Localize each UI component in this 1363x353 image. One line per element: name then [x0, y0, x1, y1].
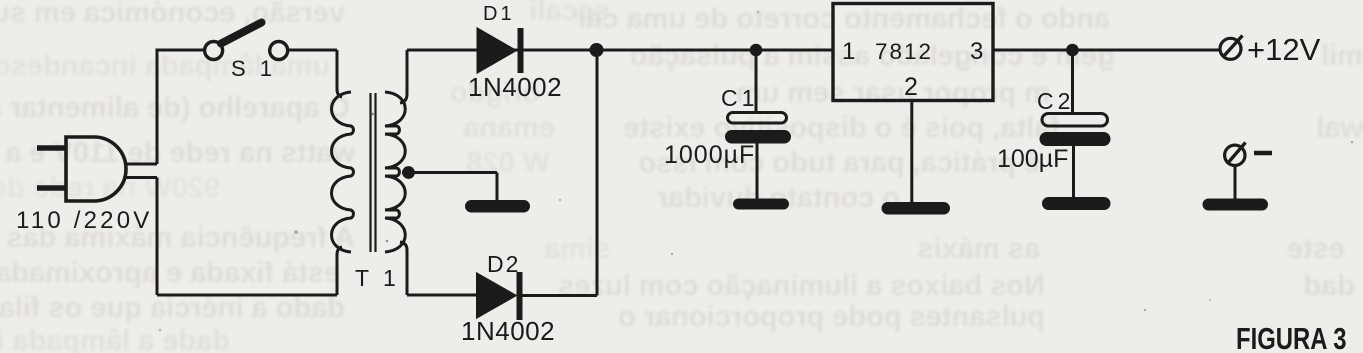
- svg-text:920W na rede de 220V.: 920W na rede de 220V.: [0, 172, 220, 204]
- svg-text:dade a lâmpada inc: dade a lâmpada inc: [0, 325, 230, 353]
- diode D2: [478, 272, 520, 320]
- svg-text:Nos baixos a iluminação com lu: Nos baixos a iluminação com luzes: [558, 270, 1045, 302]
- svg-text:m propor usar sem um: m propor usar sem um: [736, 77, 1050, 109]
- terminal minus: [1225, 143, 1246, 166]
- svg-text:sima: sima: [543, 233, 610, 265]
- svg-text:2: 2: [904, 73, 918, 101]
- svg-text:FIGURA 3: FIGURA 3: [1236, 321, 1346, 353]
- label minus: [1254, 151, 1272, 156]
- svg-text:1000µF: 1000µF: [664, 141, 755, 169]
- node center tap: [402, 166, 415, 179]
- capacitor C1: [725, 50, 791, 199]
- svg-text:versão, económica em sua empre: versão, económica em sua empregamo: [0, 0, 345, 29]
- svg-text:T 1: T 1: [355, 265, 400, 291]
- capacitor C2: [1040, 50, 1111, 197]
- svg-text:falta, pois é o dispositivo ex: falta, pois é o dispositivo existe: [623, 112, 1060, 144]
- svg-text:gem e congelado assim a pulsaç: gem e congelado assim a pulsação: [630, 40, 1115, 72]
- transformer T1 secondary winding: [385, 92, 405, 252]
- svg-text:S 1: S 1: [231, 56, 276, 81]
- svg-text:mil: mil: [1321, 40, 1363, 72]
- svg-text:3: 3: [970, 38, 983, 65]
- svg-text:dad: dad: [1303, 270, 1355, 302]
- svg-text:emana: emana: [462, 112, 555, 144]
- node C1 top: [750, 44, 763, 57]
- regulator pin labels 1 7812 3: [842, 38, 983, 101]
- wire minus terminal to ground: [1234, 166, 1237, 200]
- wire plug top to switch S1: [157, 50, 204, 164]
- transformer T1 primary winding: [332, 92, 354, 252]
- ground C1: [733, 199, 789, 210]
- wire regulator output to +12V terminal: [993, 49, 1220, 52]
- wire regulator pin 2 to ground: [910, 101, 913, 203]
- svg-text:secali: secali: [529, 0, 610, 27]
- transformer T1 core: [371, 93, 376, 252]
- wire plug bottom to bottom rail: [156, 178, 159, 296]
- wire primary bottom to bottom rail: [337, 247, 342, 295]
- svg-text:as máxis: as máxis: [917, 233, 1040, 265]
- svg-text:+12V: +12V: [1247, 32, 1321, 67]
- svg-text:wal: wal: [1316, 112, 1363, 144]
- node C2 top: [1066, 44, 1079, 57]
- svg-text:D2: D2: [487, 251, 520, 277]
- terminal +12V: [1220, 36, 1243, 60]
- svg-text:1: 1: [842, 38, 855, 65]
- wire secondary top to top rail: [400, 50, 407, 103]
- wire bottom rail D2 branch: [407, 294, 477, 297]
- svg-text:C2: C2: [1037, 88, 1074, 114]
- svg-text:110 /220V: 110 /220V: [16, 207, 152, 234]
- svg-text:W 028: W 028: [466, 147, 550, 179]
- regulator 7812 box: [833, 4, 993, 101]
- svg-text:1N4002: 1N4002: [461, 316, 555, 346]
- svg-text:dado a inércia que os filament: dado a inércia que os filamentos d: [0, 292, 345, 324]
- ground C2: [1042, 197, 1111, 210]
- wire secondary top to D1 and top rail to regulator: [407, 49, 833, 52]
- wire secondary bottom to bottom rail: [400, 242, 407, 295]
- svg-text:1N4002: 1N4002: [468, 72, 562, 102]
- svg-text:uma lâmpada incandescente comu: uma lâmpada incandescente comum.: [0, 50, 330, 82]
- ground center tap: [465, 200, 530, 213]
- svg-text:100µF: 100µF: [997, 145, 1068, 173]
- svg-text:C1: C1: [721, 85, 758, 111]
- wire switch to transformer primary: [288, 50, 342, 97]
- center tap wire: [402, 173, 497, 201]
- svg-text:O aparelho (de alimentar até 4: O aparelho (de alimentar até 40: [0, 92, 350, 124]
- bottom rail left: [157, 294, 337, 297]
- node junction top rail / D2 branch: [590, 43, 604, 57]
- svg-text:ando o fechamento correto de u: ando o fechamento correto de uma car: [575, 3, 1110, 35]
- svg-text:este: este: [1287, 233, 1345, 265]
- svg-text:D1: D1: [483, 3, 515, 25]
- svg-text:pulsantes pode proporcionar o: pulsantes pode proporcionar o: [618, 301, 1045, 333]
- switch S1: [205, 23, 288, 60]
- wire D2 to top rail junction: [522, 50, 597, 296]
- svg-text:watts na rede de 110V e a: watts na rede de 110V e a: [4, 137, 356, 169]
- svg-text:7812: 7812: [875, 39, 933, 64]
- AC plug: [37, 137, 157, 201]
- diode D1: [478, 28, 521, 73]
- svg-text:está fixada e aproximadamente: está fixada e aproximadamente 5 H: [0, 257, 340, 289]
- ground regulator pin 2: [882, 202, 951, 215]
- ground minus terminal: [1203, 199, 1269, 211]
